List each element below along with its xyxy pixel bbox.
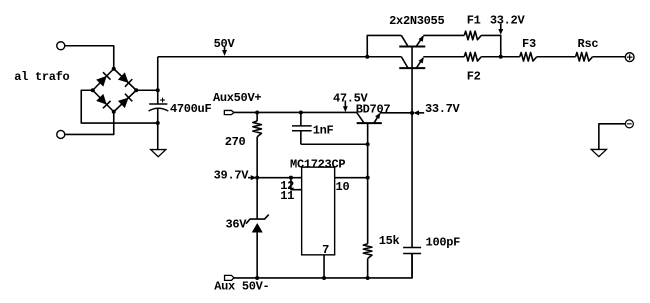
bridge edge top-right — [114, 69, 137, 91]
node bridge top — [112, 67, 116, 71]
bridge edge bottom-left — [93, 90, 114, 112]
transistor Q2 2N3055 base bar — [399, 67, 425, 69]
ground symbol right — [591, 149, 606, 156]
capacitor C2 1nF bottom lead — [300, 131, 302, 145]
label 50V — [214, 37, 236, 51]
wire capacitor top lead — [157, 90, 159, 104]
svg-text:7: 7 — [322, 243, 329, 257]
diode D2 (bottom to right) — [118, 94, 132, 108]
svg-text:100pF: 100pF — [426, 235, 461, 249]
wire 15k bottom lead — [367, 259, 369, 278]
input terminal J2 (bottom) — [57, 130, 65, 138]
output terminal minus — [625, 120, 633, 128]
wire capacitor column up to 50V rail — [157, 57, 159, 91]
svg-text:11: 11 — [280, 189, 294, 203]
svg-text:10: 10 — [336, 180, 350, 194]
node F1 F2 junction — [499, 55, 503, 59]
diode D3 (left to top) — [96, 72, 110, 86]
wire pin 10 — [335, 177, 368, 179]
wire Rsc to output — [593, 56, 626, 58]
wire bridge left node to negative rail — [81, 90, 158, 123]
transistor Q3 BD707 base bar — [357, 122, 382, 124]
capacitor C1 4700uF top plate — [149, 103, 167, 105]
wire 2N3055 base column down — [411, 68, 413, 247]
label 1nF — [313, 123, 334, 137]
svg-text:4700uF: 4700uF — [170, 102, 212, 116]
wire bridge right node to capacitor node — [136, 89, 158, 91]
label 4700uF — [170, 102, 212, 116]
svg-text:36V: 36V — [225, 217, 247, 231]
wire to left ground — [157, 123, 159, 150]
node pin7 bottom junction — [322, 276, 326, 280]
wire 50V rail — [158, 56, 402, 58]
transistor Q1 emitter arrow — [419, 36, 424, 42]
node 33.7V junction — [410, 111, 414, 115]
svg-text:F2: F2 — [467, 69, 481, 83]
label Rsc — [578, 37, 599, 51]
wire zener top lead — [256, 178, 258, 219]
label Aux50V+ — [213, 91, 261, 105]
annotation arrow 33.2V — [498, 24, 503, 35]
wire pin 12 — [257, 177, 302, 179]
label Aux 50V- — [214, 280, 269, 294]
resistor F1 — [464, 31, 481, 40]
svg-text:BD707: BD707 — [356, 103, 391, 117]
resistor F3 — [520, 52, 537, 61]
node pin12 junction — [289, 176, 293, 180]
svg-text:270: 270 — [225, 135, 246, 149]
input terminal J1 (top) — [57, 42, 65, 50]
output terminal plus — [625, 53, 634, 62]
wire Aux 50V- rail — [234, 254, 412, 278]
capacitor C1 4700uF plus sign — [160, 98, 165, 103]
wire Q1 emitter to F1 — [423, 34, 464, 36]
wire pin 7 — [323, 255, 325, 278]
annotation arrow 47.5V — [343, 100, 348, 112]
transistor Q1 emitter slant — [416, 36, 423, 46]
wire J1 to bridge top node — [64, 46, 113, 69]
resistor R2 15k — [363, 244, 372, 259]
pin label 12 — [280, 179, 294, 193]
wire Q3 emitter to base column — [380, 112, 412, 114]
label 39.7V — [214, 168, 250, 182]
wire Q2 emitter to F2 — [423, 56, 464, 58]
op-amp U1 MC1723CP body — [302, 167, 335, 255]
bridge edge top-left — [93, 69, 114, 91]
bridge edge bottom-right — [114, 90, 137, 112]
transistor Q3 emitter arrow — [375, 113, 380, 119]
port tag Aux50V- — [225, 275, 234, 280]
wire 270 top lead — [256, 112, 258, 121]
svg-text:F3: F3 — [522, 37, 536, 51]
label F3 — [522, 37, 536, 51]
svg-text:Aux50V+: Aux50V+ — [213, 91, 261, 105]
resistor Rsc — [576, 52, 593, 61]
pin label 10 — [336, 180, 350, 194]
label 33.2V — [490, 14, 526, 28]
wire capacitor bottom lead — [157, 109, 159, 123]
wire F3 to Rsc — [537, 56, 576, 58]
diode D4 (left to bottom) — [96, 94, 110, 108]
capacitor C2 1nF top plate — [292, 125, 312, 127]
label BD707 — [356, 103, 391, 117]
label 2x2N3055 — [389, 14, 444, 28]
node pin10 junction — [366, 176, 370, 180]
annotation arrow 33.7V — [413, 110, 424, 115]
transistor Q3 collector slant — [357, 112, 365, 123]
port tag Aux50V+ — [224, 110, 234, 114]
label 33.7V — [425, 102, 461, 116]
node 270 top junction — [255, 110, 259, 114]
node 15k bottom junction — [366, 276, 370, 280]
resistor R1 270 — [253, 121, 262, 137]
node 1nF BD707 junction — [366, 142, 370, 146]
transistor Q1 2N3055 base bar — [399, 45, 425, 47]
label MC1723CP — [290, 157, 345, 171]
capacitor C2 1nF top lead — [300, 112, 302, 125]
wire Q1 collector — [367, 35, 401, 56]
capacitor C2 1nF bottom plate — [292, 130, 312, 132]
node capacitor top junction — [156, 88, 160, 92]
svg-text:1nF: 1nF — [313, 123, 334, 137]
node 50V rail junction — [365, 55, 369, 59]
node capacitor bottom junction — [156, 121, 160, 125]
wire pin 11 link — [291, 178, 302, 190]
svg-text:33.7V: 33.7V — [425, 102, 461, 116]
pin label 11 — [280, 189, 294, 203]
capacitor C3 100pF top plate — [403, 246, 421, 248]
node bridge right — [134, 88, 138, 92]
wire minus terminal to ground — [599, 124, 626, 150]
node zener bottom junction — [255, 276, 259, 280]
wire 1nF to BD707 base — [301, 143, 368, 145]
transistor Q1 collector slant — [401, 35, 408, 46]
ground symbol left — [151, 150, 166, 157]
transistor Q2 emitter slant — [416, 58, 423, 68]
svg-text:al trafo: al trafo — [14, 70, 69, 84]
zener D5 36V cathode bar — [246, 215, 269, 224]
zener D5 36V triangle — [252, 223, 263, 233]
transistor Q2 emitter arrow — [419, 57, 424, 63]
svg-text:Aux 50V-: Aux 50V- — [214, 280, 269, 294]
label 15k — [379, 234, 400, 248]
wire BD707 base column — [367, 123, 369, 244]
diode D1 (top to right) — [118, 72, 132, 86]
label F2 — [467, 69, 481, 83]
svg-text:15k: 15k — [379, 234, 400, 248]
node 39.7V junction — [255, 176, 259, 180]
node 1nF top junction — [299, 110, 303, 114]
label 47.5V — [333, 91, 369, 105]
capacitor C3 100pF bottom plate — [403, 253, 421, 255]
wire Aux50V+ rail — [234, 111, 357, 113]
svg-text:39.7V: 39.7V — [214, 168, 250, 182]
annotation arrow 39.7V — [248, 175, 256, 180]
annotation arrow 50V — [222, 47, 227, 56]
transistor Q3 emitter slant — [374, 114, 380, 123]
wire 100pF bottom lead — [411, 254, 413, 278]
label F1 — [467, 14, 481, 28]
node bridge left — [91, 88, 95, 92]
svg-text:F1: F1 — [467, 14, 481, 28]
wire Q1Q2 base column — [411, 46, 413, 68]
wire zener bottom lead — [256, 233, 258, 278]
pin label 7 — [322, 243, 329, 257]
wire F2 to junction — [481, 56, 520, 58]
capacitor C1 4700uF curved plate — [149, 108, 169, 111]
resistor F2 — [464, 52, 481, 61]
svg-text:2x2N3055: 2x2N3055 — [389, 14, 444, 28]
svg-text:33.2V: 33.2V — [490, 14, 526, 28]
svg-text:Rsc: Rsc — [578, 37, 599, 51]
label 36V — [225, 217, 247, 231]
wire F1 to junction — [481, 35, 501, 56]
label 100pF — [426, 235, 461, 249]
label 270 — [225, 135, 246, 149]
wire 270 bottom lead — [256, 137, 258, 178]
wire J2 to bridge bottom node — [64, 112, 113, 135]
transistor Q2 collector slant — [401, 57, 408, 68]
label al trafo — [14, 70, 69, 84]
node bridge bottom — [112, 110, 116, 114]
